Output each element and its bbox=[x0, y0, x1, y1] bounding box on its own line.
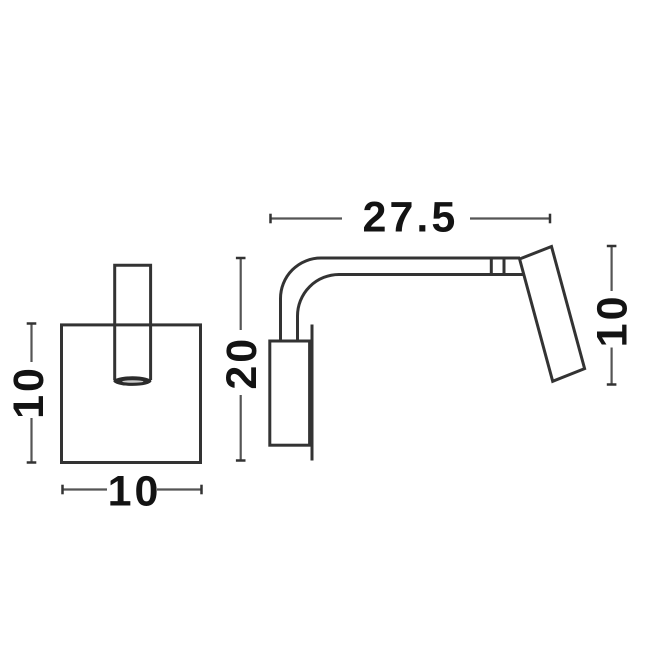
tick 20-top bbox=[236, 257, 246, 260]
front view cylinder bottom lens (ellipse) bbox=[113, 376, 151, 386]
front view lamp cylinder bbox=[115, 265, 151, 380]
svg-text:10: 10 bbox=[589, 293, 637, 347]
dimension line 10 left (vertical) bbox=[30, 324, 32, 463]
tick right-bottom bbox=[607, 383, 617, 386]
svg-text:10: 10 bbox=[108, 467, 162, 515]
svg-text:27.5: 27.5 bbox=[363, 194, 459, 242]
arm inner contour bbox=[298, 275, 525, 342]
tick right-top bbox=[607, 245, 617, 248]
tick left-top bbox=[27, 322, 37, 325]
side view wall line bbox=[311, 325, 314, 461]
tick top-left bbox=[269, 214, 272, 224]
lens inner highlight bbox=[122, 380, 143, 383]
tick top-right bbox=[549, 214, 552, 224]
svg-text:20: 20 bbox=[218, 336, 266, 390]
dimension line 20 (vertical) bbox=[240, 258, 242, 461]
dimension line 27.5 top (horizontal) bbox=[271, 217, 551, 219]
tick 20-bottom bbox=[236, 459, 246, 462]
tick left-bottom bbox=[27, 461, 37, 464]
tick bottom-left bbox=[61, 485, 64, 495]
arm joint tick 1 bbox=[490, 257, 493, 277]
dimension line 10 right (vertical) bbox=[610, 246, 612, 385]
svg-text:10: 10 bbox=[5, 365, 53, 419]
arm outer contour bbox=[281, 258, 521, 341]
arm joint tick 2 bbox=[503, 257, 506, 277]
side view mounting bracket bbox=[270, 341, 310, 445]
tick bottom-right bbox=[200, 485, 203, 495]
front view wall plate (square) bbox=[62, 325, 201, 463]
lamp head (angled cylinder) bbox=[520, 247, 585, 382]
dimension line 10 bottom (horizontal) bbox=[63, 488, 202, 490]
